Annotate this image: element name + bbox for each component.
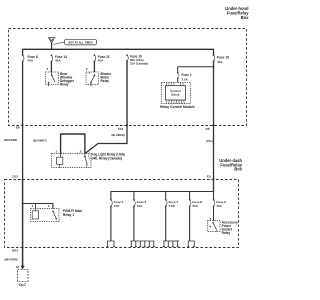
svg-text:E5: E5 xyxy=(207,174,211,178)
pin ticks top xyxy=(167,82,185,104)
wire fuse6 to connector comb xyxy=(133,206,135,241)
svg-text:40A: 40A xyxy=(55,58,61,62)
battery triangle symbol xyxy=(49,38,55,44)
relay control module (dashed outer) xyxy=(162,83,191,104)
wire to PGM-FI relay xyxy=(23,204,53,209)
svg-text:(BLU/RED): (BLU/RED) xyxy=(112,133,125,137)
under-dash bus wire xyxy=(111,192,214,200)
node E6 xyxy=(22,124,24,126)
svg-text:40A: 40A xyxy=(98,58,104,62)
blower motor relay xyxy=(86,67,112,86)
svg-text:Box: Box xyxy=(241,15,249,20)
svg-text:Block: Block xyxy=(171,93,180,97)
fuse 21 xyxy=(94,54,110,62)
fuse 15 xyxy=(213,54,229,64)
wire fuse1 to control block xyxy=(177,78,179,82)
node E5 xyxy=(213,179,215,181)
svg-text:Relay: Relay xyxy=(101,79,110,83)
wire triangle to bus xyxy=(51,43,53,49)
wire F13 to fog relay pin 2 xyxy=(85,125,127,153)
node M13 xyxy=(22,247,24,249)
svg-text:HOT AT ALL TIMES: HOT AT ALL TIMES xyxy=(68,40,93,44)
left wire through under-dash box xyxy=(22,180,24,267)
fog light relay / DRL relay xyxy=(52,149,126,168)
svg-text:E6: E6 xyxy=(16,126,20,130)
wire fuse8 to connector comb xyxy=(189,206,191,241)
svg-text:Relay Control Module: Relay Control Module xyxy=(160,105,195,109)
junction dot bus/fuse14 xyxy=(51,48,53,50)
junction dot bus/fuse21 xyxy=(94,48,96,50)
svg-text:16: 16 xyxy=(16,265,20,269)
svg-text:(BLU/WHT): (BLU/WHT) xyxy=(33,138,47,142)
wire fuse14 to defogger relay xyxy=(50,61,52,72)
svg-text:7.5A: 7.5A xyxy=(182,77,189,81)
fuse 5 xyxy=(110,199,124,208)
svg-text:15A: 15A xyxy=(137,204,143,208)
fuse 8 lower xyxy=(189,192,202,208)
wire fuse5 to connector comb xyxy=(110,206,112,241)
svg-text:D13: D13 xyxy=(12,174,18,178)
HOT AT ALL TIMES callout xyxy=(64,39,96,45)
wire fuse7 to connector comb xyxy=(165,206,167,241)
comb fuse5 xyxy=(106,241,115,247)
svg-text:Box: Box xyxy=(234,167,242,172)
left feed wire fuse8 down to E6/D13 xyxy=(22,61,24,179)
accessory power socket relay xyxy=(208,220,238,235)
under-hood fuse/relay box (dashed) xyxy=(9,29,247,126)
comb fuse6 xyxy=(130,241,155,247)
fog relay jumper wire xyxy=(61,134,85,154)
fuse 6 xyxy=(133,192,147,208)
wire fuse21 to blower relay xyxy=(93,61,95,72)
wire fuse15 down to D6 xyxy=(213,61,215,125)
under-dash fuse/relay box label xyxy=(219,158,242,172)
PGM-FI main relay 1 xyxy=(31,209,83,222)
DLC connector box xyxy=(18,270,29,282)
svg-text:20A: 20A xyxy=(192,204,198,208)
svg-text:15A: 15A xyxy=(216,204,222,208)
wire fuse9 to accessory relay xyxy=(213,206,215,220)
svg-text:Relay: Relay xyxy=(60,82,69,86)
svg-text:7.5A: 7.5A xyxy=(169,204,176,208)
rear window defogger relay xyxy=(46,67,75,87)
svg-text:(WHT/GRN): (WHT/GRN) xyxy=(4,139,17,142)
fuse 14 xyxy=(51,54,67,62)
node D13 xyxy=(22,179,24,181)
svg-text:M13: M13 xyxy=(12,249,18,253)
svg-text:DLC: DLC xyxy=(19,283,26,287)
pin 4 tick xyxy=(34,204,36,209)
svg-text:(WHT/GRN): (WHT/GRN) xyxy=(5,259,18,262)
svg-text:40A: 40A xyxy=(28,58,34,62)
under-dash fuse/relay box (dashed) xyxy=(5,180,239,248)
node F13 xyxy=(126,124,128,126)
fuse 8 xyxy=(22,54,38,62)
svg-text:15A (Canada): 15A (Canada) xyxy=(130,61,148,65)
wire fuse10 down to F13 xyxy=(126,61,128,125)
svg-text:15A: 15A xyxy=(114,204,120,208)
svg-text:Relay 1: Relay 1 xyxy=(63,213,74,217)
fuse 1 xyxy=(177,72,192,81)
fuse 7 xyxy=(165,192,178,208)
wire D6 down to E5 xyxy=(213,125,215,191)
fuse 10 xyxy=(126,54,148,65)
comb fuse7 xyxy=(163,241,179,247)
svg-text:Relay: Relay xyxy=(222,231,231,235)
fuse 1 branch wire xyxy=(178,67,214,73)
callout line xyxy=(53,42,64,45)
svg-text:(YEL): (YEL) xyxy=(206,139,213,143)
fuse 9 xyxy=(213,192,226,208)
svg-text:D6: D6 xyxy=(206,127,210,131)
control block inner box xyxy=(166,86,186,100)
under-hood fuse/relay box label xyxy=(225,6,249,20)
svg-text:Fuse 15: Fuse 15 xyxy=(217,55,229,59)
svg-text:DRL Relay (Canada): DRL Relay (Canada) xyxy=(92,156,122,160)
svg-text:40A: 40A xyxy=(217,60,223,64)
junction dot bus/fuse10 xyxy=(126,48,128,50)
svg-text:F13: F13 xyxy=(118,127,124,131)
node D6 xyxy=(213,124,215,126)
comb fuse8 xyxy=(187,241,195,247)
power bus wire xyxy=(23,49,214,55)
